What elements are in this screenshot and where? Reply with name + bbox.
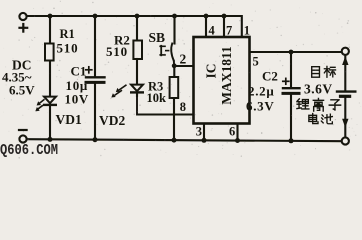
svg-text:510: 510 <box>106 44 128 59</box>
svg-text:C2: C2 <box>262 69 278 84</box>
svg-text:6.3V: 6.3V <box>246 99 274 114</box>
svg-text:10V: 10V <box>65 91 90 106</box>
svg-text:8: 8 <box>180 100 186 114</box>
svg-text:IC: IC <box>204 63 219 78</box>
svg-text:Q606.COM: Q606.COM <box>0 143 58 159</box>
svg-text:VD1: VD1 <box>56 112 82 127</box>
svg-text:510: 510 <box>57 41 79 56</box>
svg-text:MAX1811: MAX1811 <box>219 46 234 105</box>
svg-text:4: 4 <box>209 24 216 38</box>
svg-text:1: 1 <box>244 24 250 38</box>
svg-text:2: 2 <box>180 52 187 67</box>
svg-text:SB: SB <box>149 30 166 45</box>
svg-text:2.2μ: 2.2μ <box>248 83 274 98</box>
svg-text:R1: R1 <box>60 27 75 41</box>
svg-text:10k: 10k <box>147 91 167 105</box>
svg-text:5: 5 <box>253 55 259 69</box>
svg-text:6.5V: 6.5V <box>9 83 35 98</box>
svg-text:3: 3 <box>196 125 202 139</box>
svg-text:7: 7 <box>226 24 232 38</box>
svg-text:C1: C1 <box>71 64 87 79</box>
svg-text:VD2: VD2 <box>99 113 125 128</box>
svg-text:3.6V: 3.6V <box>304 82 333 97</box>
